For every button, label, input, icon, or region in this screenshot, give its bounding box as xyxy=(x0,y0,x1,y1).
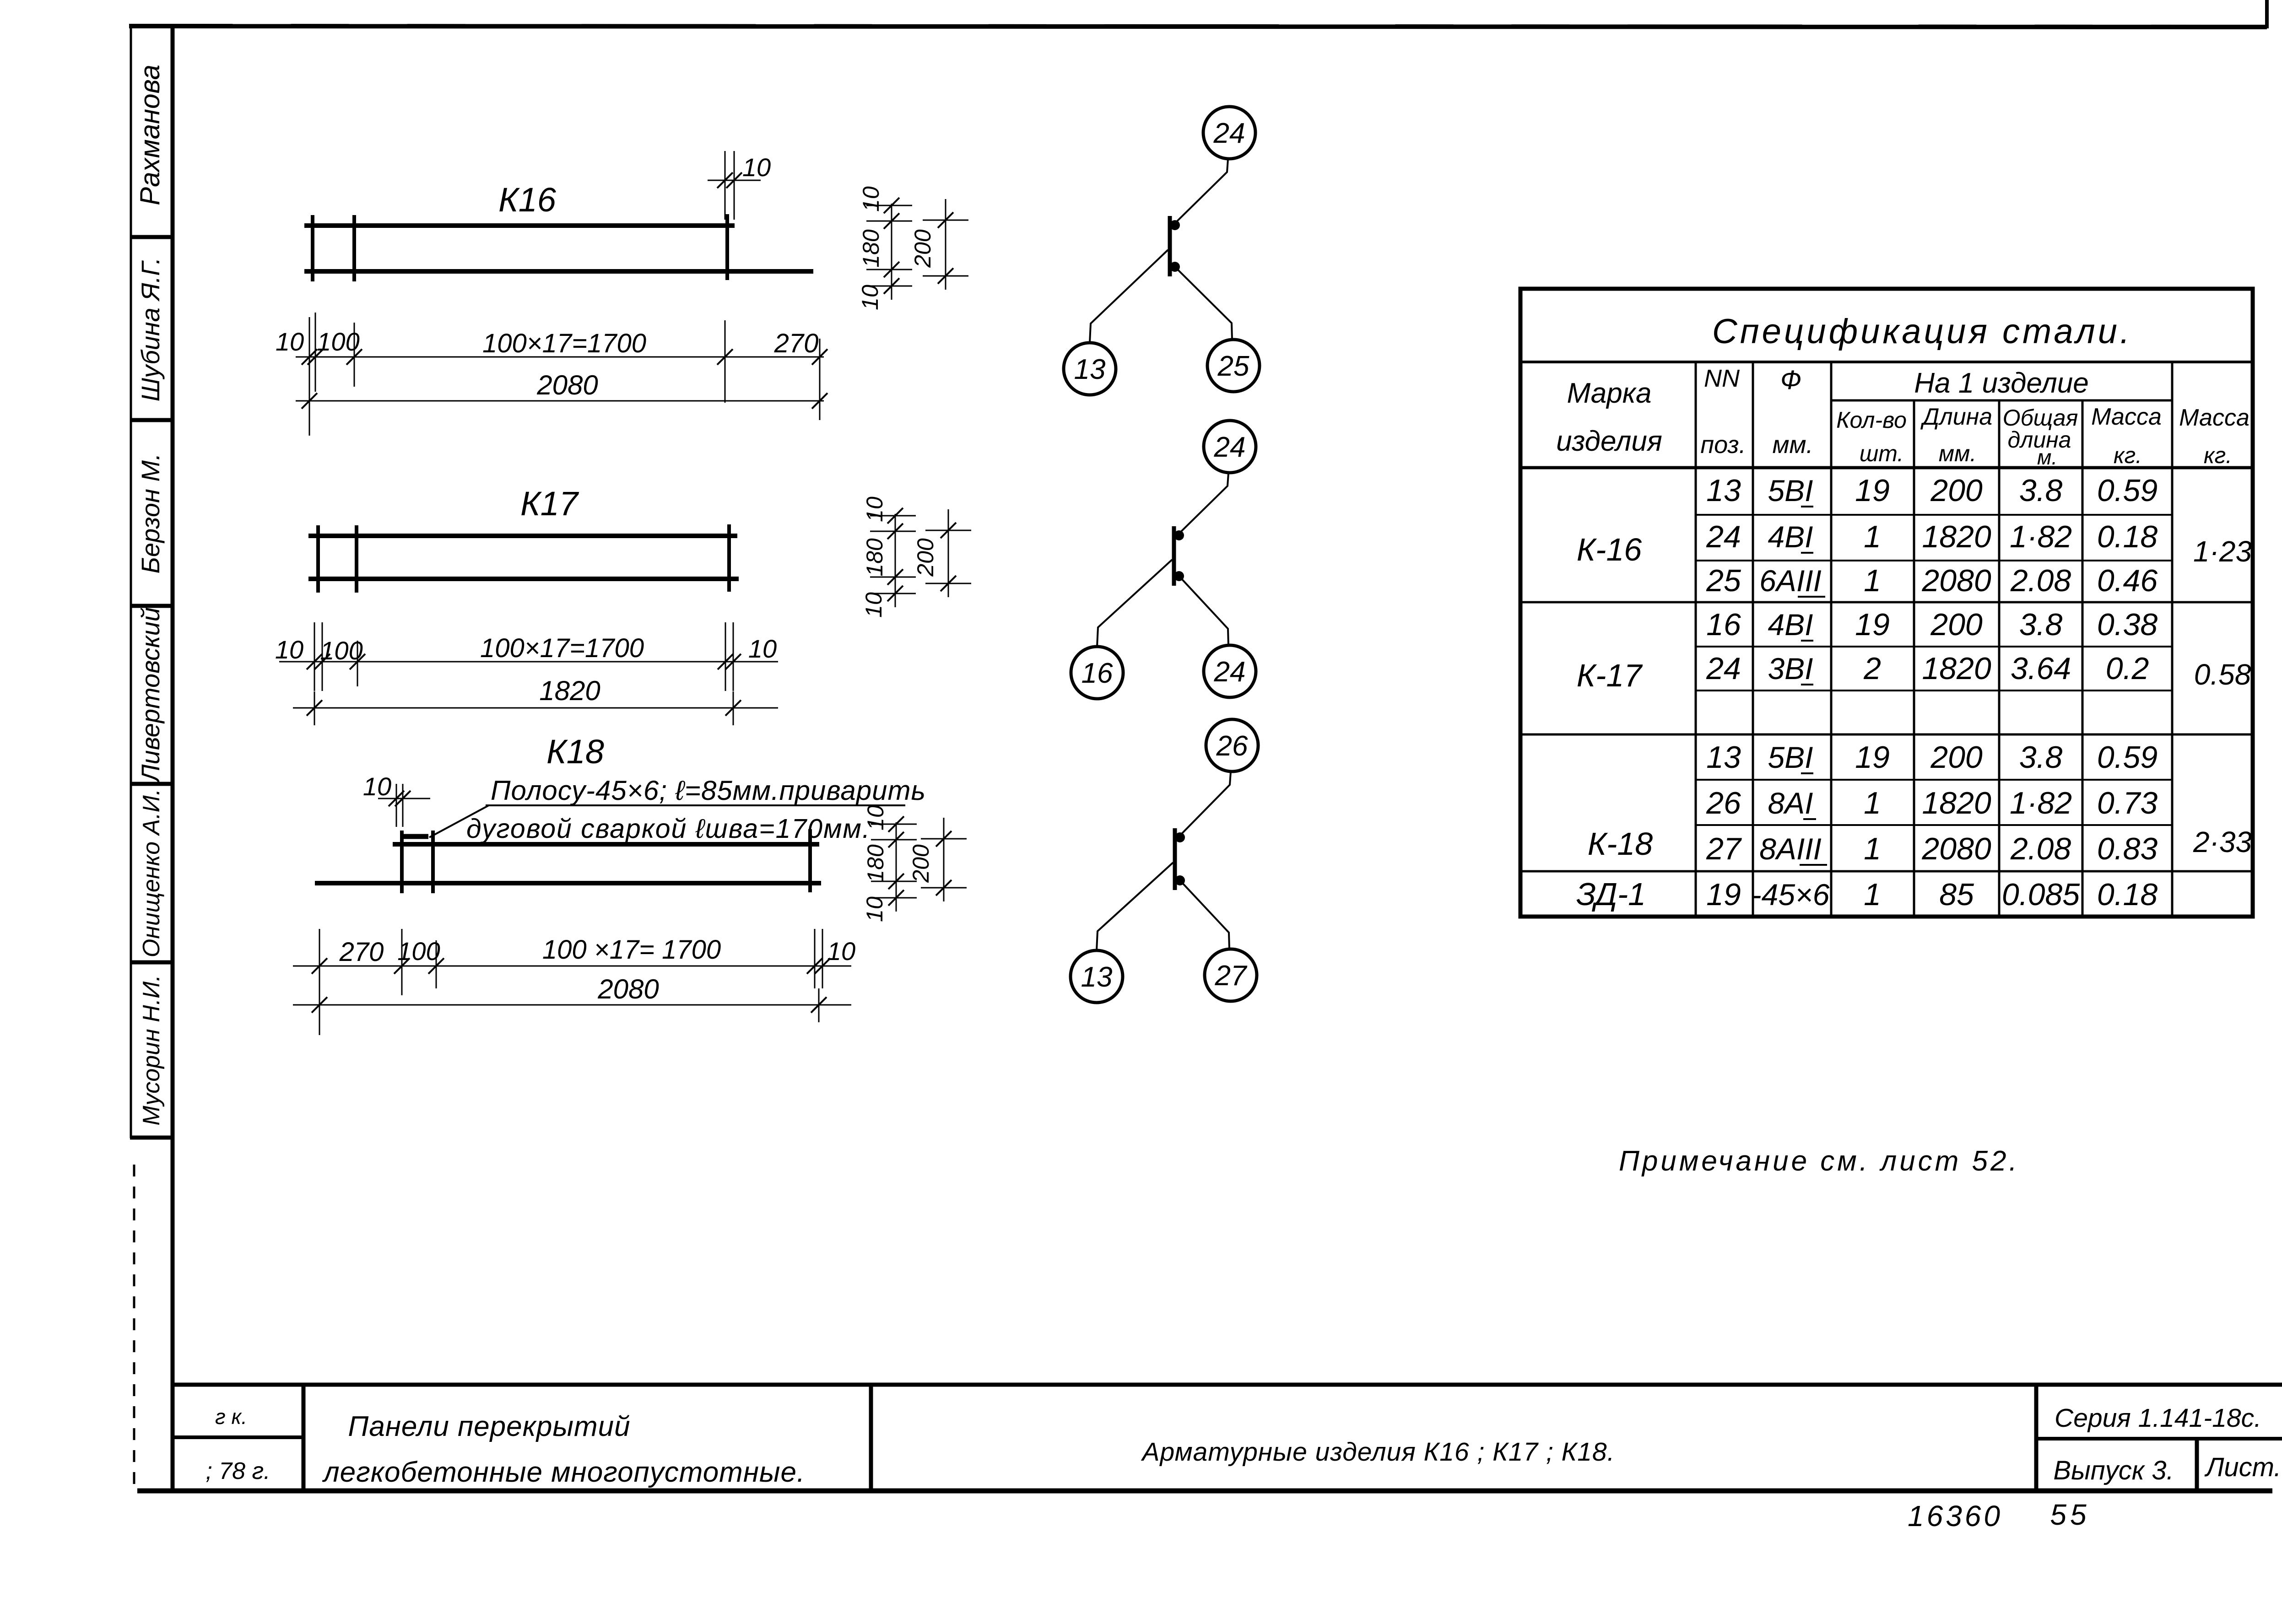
svg-text:К-18: К-18 xyxy=(1588,826,1653,862)
svg-text:200: 200 xyxy=(1930,740,1983,775)
svg-text:1820: 1820 xyxy=(1922,519,1991,554)
table group separator below К-18 xyxy=(1520,870,2253,873)
K16 diagram weld dot top xyxy=(1170,220,1180,230)
svg-text:19: 19 xyxy=(1855,607,1890,642)
svg-text:0.085: 0.085 xyxy=(2002,877,2080,912)
sidebar dashed left edge continuation xyxy=(133,1165,135,1485)
svg-text:1: 1 xyxy=(1864,563,1881,598)
svg-text:24: 24 xyxy=(1706,651,1741,686)
K17 overall dimension 1820 xyxy=(293,707,778,709)
svg-text:Панели перекрытий: Панели перекрытий xyxy=(348,1411,630,1442)
svg-text:55: 55 xyxy=(2050,1498,2090,1531)
title block top line xyxy=(173,1383,2282,1387)
svg-text:3.64: 3.64 xyxy=(2011,651,2071,686)
K16 diagram callout circle 24 (top) xyxy=(1203,107,1255,159)
svg-text:8АIII: 8АIII xyxy=(1759,832,1822,866)
K17 diagram leader from section bar to circle 16 xyxy=(1097,560,1172,647)
svg-text:2.08: 2.08 xyxy=(2010,563,2071,598)
svg-text:Лист.: Лист. xyxy=(2204,1452,2282,1482)
K18 diagram callout circle 26 (top) xyxy=(1206,719,1258,772)
K17 diagram leader from section bar to circle 24 xyxy=(1180,577,1228,645)
table inner row line 3 xyxy=(1696,646,2172,647)
svg-text:; 78 г.: ; 78 г. xyxy=(205,1458,270,1484)
K16 diagram weld dot bottom xyxy=(1170,262,1180,272)
svg-text:10: 10 xyxy=(862,896,887,922)
svg-text:1·82: 1·82 xyxy=(2010,519,2072,554)
sidebar cell divider 5 xyxy=(130,960,173,965)
svg-text:0.73: 0.73 xyxy=(2097,786,2158,820)
K17 cross-section dimension 10/180/10 xyxy=(895,514,896,607)
svg-text:К17: К17 xyxy=(520,485,579,523)
K16 diagram leader from section bar to circle 13 xyxy=(1090,250,1168,343)
svg-text:3.8: 3.8 xyxy=(2019,740,2063,775)
svg-text:2·33: 2·33 xyxy=(2193,825,2252,858)
K16 overall dimension 2080 xyxy=(296,400,824,402)
svg-text:25: 25 xyxy=(1706,563,1741,598)
K18 right cross rod (pos 13) xyxy=(808,829,812,892)
svg-text:19: 19 xyxy=(1855,473,1890,508)
svg-text:200: 200 xyxy=(908,844,934,883)
svg-text:мм.: мм. xyxy=(1772,431,1813,459)
K16 top chord (pos 24) xyxy=(304,223,735,228)
svg-text:3.8: 3.8 xyxy=(2019,473,2063,508)
svg-text:шт.: шт. xyxy=(1860,441,1903,466)
svg-text:0.59: 0.59 xyxy=(2097,473,2158,508)
svg-text:10: 10 xyxy=(742,153,771,182)
K18 left cross rod 1 (pos 13) xyxy=(400,831,404,893)
K16 left cross rod 2 (pos 13) xyxy=(352,215,356,281)
svg-text:13: 13 xyxy=(1074,354,1106,385)
svg-text:Выпуск 3.: Выпуск 3. xyxy=(2053,1456,2174,1485)
title block left col row divider xyxy=(173,1435,303,1439)
svg-text:Ф: Ф xyxy=(1780,365,1801,395)
K17 top chord (pos 24) xyxy=(308,534,737,538)
K18 diagram weld dot bottom xyxy=(1175,875,1185,885)
svg-text:180: 180 xyxy=(858,229,884,268)
svg-text:Масса: Масса xyxy=(2091,404,2162,430)
svg-text:4ВI: 4ВI xyxy=(1768,520,1813,554)
K18 diagram leader from section bar to circle 13 xyxy=(1097,863,1173,950)
svg-text:100 ×17= 1700: 100 ×17= 1700 xyxy=(542,935,721,965)
svg-text:1: 1 xyxy=(1864,519,1881,554)
title block divider: Выпуск | Лист xyxy=(2195,1439,2199,1491)
frame top-right corner stub xyxy=(2265,0,2269,28)
svg-text:2080: 2080 xyxy=(1921,831,1991,866)
K18 plate overhang dim 10 (top left) xyxy=(378,798,430,799)
svg-text:0.38: 0.38 xyxy=(2097,607,2158,642)
table column line NN|Ф xyxy=(1752,362,1754,917)
svg-text:24: 24 xyxy=(1214,656,1246,688)
svg-text:13: 13 xyxy=(1081,961,1113,993)
table column line Марка|NN xyxy=(1695,362,1697,917)
svg-text:100: 100 xyxy=(397,937,440,966)
svg-text:85: 85 xyxy=(1939,877,1974,912)
K17 left cross rod 1 (pos 16) xyxy=(316,525,320,593)
K16 right cross rod (pos 13) xyxy=(725,214,729,280)
svg-text:100×17=1700: 100×17=1700 xyxy=(482,329,646,358)
svg-text:1820: 1820 xyxy=(1922,786,1991,820)
K17 diagram section bar xyxy=(1172,526,1176,586)
sidebar cell divider 2 xyxy=(130,418,173,422)
table subheader line under На 1 изделие xyxy=(1831,399,2172,402)
K17 cross-section dimension 200 xyxy=(948,509,949,597)
svg-text:Примечание см. лист 52.: Примечание см. лист 52. xyxy=(1619,1145,2020,1177)
table inner row line 5 xyxy=(1696,779,2172,781)
sidebar left edge xyxy=(130,27,132,1138)
K18 diagram callout circle 13 (bottom left) xyxy=(1071,950,1123,1003)
svg-text:10: 10 xyxy=(276,327,304,356)
svg-text:10: 10 xyxy=(275,635,303,664)
K18 bottom chord (pos 27) xyxy=(315,881,821,885)
svg-text:NN: NN xyxy=(1704,365,1740,392)
K16 diagram callout circle 25 (bottom right) xyxy=(1207,340,1260,392)
svg-text:Марка: Марка xyxy=(1567,378,1651,409)
svg-text:200: 200 xyxy=(913,538,938,577)
K18 left cross rod 2 (pos 13) xyxy=(431,831,435,893)
frame top border xyxy=(129,26,2267,27)
svg-text:27: 27 xyxy=(1215,960,1248,992)
svg-text:24: 24 xyxy=(1706,519,1741,554)
svg-text:изделия: изделия xyxy=(1556,426,1662,457)
table inner row line 4 xyxy=(1696,690,2172,691)
table group separator below К-16 xyxy=(1520,601,2253,604)
svg-text:26: 26 xyxy=(1216,730,1248,762)
svg-text:10: 10 xyxy=(863,805,888,831)
svg-text:0.18: 0.18 xyxy=(2097,877,2158,912)
svg-text:Онищенко А.И.: Онищенко А.И. xyxy=(138,789,165,957)
svg-text:0.83: 0.83 xyxy=(2097,831,2158,866)
svg-text:ЗД-1: ЗД-1 xyxy=(1576,876,1646,912)
K18 top chord (pos 26) xyxy=(393,842,819,847)
svg-text:Рахманова: Рахманова xyxy=(135,65,165,205)
table inner row line 1 xyxy=(1696,514,2172,516)
table column line Ф|На 1 изделие xyxy=(1830,362,1833,917)
K16 cross-section dimension 10/180/10 xyxy=(891,204,892,300)
K16 diagram callout circle 13 (bottom left) xyxy=(1064,343,1116,395)
K16 diagram section bar xyxy=(1168,216,1172,276)
K17 diagram leader from circle 24 to section bar xyxy=(1178,473,1228,534)
svg-text:К18: К18 xyxy=(546,733,604,771)
K17 right cross rod (pos 16) xyxy=(727,524,731,592)
K18 overall dimension 2080 xyxy=(293,1004,851,1006)
svg-text:24: 24 xyxy=(1214,432,1246,463)
svg-text:0.58: 0.58 xyxy=(2194,658,2251,691)
table inner row line 6 xyxy=(1696,824,2172,826)
svg-text:180: 180 xyxy=(862,538,887,577)
svg-text:0.18: 0.18 xyxy=(2097,519,2158,554)
svg-text:180: 180 xyxy=(863,844,888,883)
K17 diagram callout circle 16 (bottom left) xyxy=(1071,647,1123,699)
svg-text:1·82: 1·82 xyxy=(2010,786,2072,820)
svg-text:16360: 16360 xyxy=(1908,1500,2003,1532)
svg-text:Спецификация стали.: Спецификация стали. xyxy=(1712,312,2132,351)
K17 diagram callout circle 24 (bottom right) xyxy=(1204,645,1256,697)
svg-text:Масса: Масса xyxy=(2179,405,2250,431)
svg-text:легкобетонные многопустотны: легкобетонные многопустотные. xyxy=(322,1457,806,1488)
svg-text:6АIII: 6АIII xyxy=(1759,564,1822,598)
K18 diagram callout circle 27 (bottom right) xyxy=(1205,949,1257,1001)
svg-text:3.8: 3.8 xyxy=(2019,607,2063,642)
svg-text:0.2: 0.2 xyxy=(2106,651,2149,686)
svg-text:2080: 2080 xyxy=(1921,563,1991,598)
K16 left cross rod 1 (pos 13) xyxy=(311,215,314,281)
svg-text:поз.: поз. xyxy=(1700,431,1746,459)
svg-text:19: 19 xyxy=(1706,877,1741,912)
svg-text:25: 25 xyxy=(1217,351,1249,382)
table header bottom line xyxy=(1520,466,2253,469)
svg-text:8АI: 8АI xyxy=(1768,786,1813,820)
svg-text:100: 100 xyxy=(320,636,362,665)
K18 dimension chain 270/100/1700/10 xyxy=(293,966,851,967)
svg-text:К-17: К-17 xyxy=(1577,658,1643,693)
frame left border xyxy=(171,24,175,1493)
svg-text:10: 10 xyxy=(857,285,883,310)
svg-text:Кол-во: Кол-во xyxy=(1836,407,1907,433)
K18 leader line to welded plate xyxy=(429,805,489,837)
frame bottom border xyxy=(137,1489,2272,1494)
title block divider: left col | object name xyxy=(302,1385,306,1491)
svg-text:200: 200 xyxy=(910,229,936,268)
svg-text:270: 270 xyxy=(339,937,384,967)
steel specification table frame xyxy=(1520,289,2253,917)
table group separator below К-17 xyxy=(1520,734,2253,736)
svg-text:2: 2 xyxy=(1863,651,1881,686)
svg-text:200: 200 xyxy=(1930,607,1983,642)
sidebar cell divider 1 xyxy=(130,235,173,239)
svg-text:Длина: Длина xyxy=(1920,404,1992,430)
svg-text:1: 1 xyxy=(1864,786,1881,820)
sidebar cell divider 3 xyxy=(130,604,173,608)
svg-text:13: 13 xyxy=(1706,740,1741,775)
svg-text:10: 10 xyxy=(861,592,887,618)
K16 dimension chain 10/100/1700/270 xyxy=(296,356,824,358)
svg-text:13: 13 xyxy=(1706,473,1741,508)
svg-text:Серия 1.141-18с.: Серия 1.141-18с. xyxy=(2055,1403,2261,1433)
svg-text:м.: м. xyxy=(2037,445,2057,469)
svg-text:200: 200 xyxy=(1930,473,1983,508)
K18 cross-section dimension 200 xyxy=(943,818,945,901)
svg-text:16: 16 xyxy=(1082,658,1113,689)
table column line Общая|Масса xyxy=(2082,400,2084,917)
svg-text:10: 10 xyxy=(748,634,777,663)
svg-text:кг.: кг. xyxy=(2204,442,2232,468)
K18 welded plate ЗД-1 (pos 19) xyxy=(400,834,428,839)
svg-text:мм.: мм. xyxy=(1939,441,1976,466)
K18 cross-section dimension 10/180/10 xyxy=(896,822,897,912)
table inner row line 2 xyxy=(1696,560,2172,561)
svg-text:1820: 1820 xyxy=(539,675,600,706)
svg-text:г к.: г к. xyxy=(215,1405,247,1429)
svg-text:2080: 2080 xyxy=(536,370,598,400)
K18 diagram section bar xyxy=(1173,828,1177,890)
K17 diagram weld dot top xyxy=(1174,530,1184,540)
svg-text:10: 10 xyxy=(827,937,855,966)
table column line На 1 изделие|Масса общ xyxy=(2171,362,2174,917)
svg-text:2080: 2080 xyxy=(597,974,659,1004)
svg-text:5ВI: 5ВI xyxy=(1768,740,1813,774)
svg-text:10: 10 xyxy=(858,186,884,212)
table column line Кол-во|Длина xyxy=(1913,400,1915,917)
svg-text:1: 1 xyxy=(1864,877,1881,912)
svg-text:Шубина Я.Г.: Шубина Я.Г. xyxy=(136,257,165,401)
K18 diagram leader from circle 26 to section bar xyxy=(1179,772,1231,836)
svg-text:2.08: 2.08 xyxy=(2010,831,2071,866)
svg-text:Берзон М.: Берзон М. xyxy=(136,453,165,573)
svg-text:27: 27 xyxy=(1706,831,1742,866)
svg-text:1820: 1820 xyxy=(1922,651,1991,686)
svg-text:0.46: 0.46 xyxy=(2097,563,2158,598)
svg-text:26: 26 xyxy=(1706,786,1741,820)
svg-text:5ВI: 5ВI xyxy=(1768,474,1813,507)
K17 left cross rod 2 (pos 16) xyxy=(355,525,358,593)
svg-text:100×17=1700: 100×17=1700 xyxy=(480,633,644,663)
title block series row divider xyxy=(2036,1437,2282,1441)
svg-text:Ливертовский: Ливертовский xyxy=(136,607,165,783)
svg-text:1·23: 1·23 xyxy=(2193,535,2252,568)
svg-text:К-16: К-16 xyxy=(1577,532,1642,567)
table title row separator xyxy=(1520,361,2253,363)
title block divider: sheet name | series xyxy=(2034,1385,2039,1491)
table column line Длина|Общая xyxy=(1998,400,2001,917)
svg-text:0.59: 0.59 xyxy=(2097,740,2158,775)
sidebar cell divider 6 xyxy=(130,1136,173,1140)
svg-text:16: 16 xyxy=(1706,607,1741,642)
svg-text:К16: К16 xyxy=(498,181,557,219)
svg-text:3ВI: 3ВI xyxy=(1768,652,1813,685)
K17 dimension chain 10/100/1700/10 xyxy=(279,661,778,663)
K16 diagram leader from section bar to circle 25 xyxy=(1176,268,1232,340)
K17 diagram callout circle 24 (top) xyxy=(1204,421,1256,473)
svg-text:4ВI: 4ВI xyxy=(1768,608,1813,642)
svg-text:100: 100 xyxy=(317,327,359,356)
svg-text:19: 19 xyxy=(1855,740,1890,775)
svg-text:Полосу-45×6; ℓ=85мм.приварить: Полосу-45×6; ℓ=85мм.приварить xyxy=(491,775,926,806)
K18 diagram weld dot top xyxy=(1175,832,1185,842)
K18 diagram leader from section bar to circle 27 xyxy=(1181,881,1229,949)
svg-text:кг.: кг. xyxy=(2114,442,2142,468)
K16 diagram leader from circle 24 to section bar xyxy=(1174,159,1228,224)
svg-text:На 1 изделие: На 1 изделие xyxy=(1914,367,2088,399)
sidebar cell divider 4 xyxy=(130,782,173,786)
svg-text:270: 270 xyxy=(774,329,819,358)
K16 overhang dim 10 (top right) xyxy=(708,180,761,181)
K17 bottom chord (pos 24) xyxy=(308,577,739,581)
K16 cross-section dimension 200 xyxy=(945,199,946,290)
title block divider: object name | sheet name xyxy=(869,1385,873,1491)
svg-text:Арматурные изделия К16 ; К: Арматурные изделия К16 ; К17 ; К18. xyxy=(1141,1437,1615,1467)
K18 weld note underline xyxy=(486,804,905,806)
K16 bottom chord (pos 25) xyxy=(304,269,813,274)
svg-text:24: 24 xyxy=(1213,118,1245,149)
svg-text:-45×6: -45×6 xyxy=(1752,878,1830,912)
svg-text:10: 10 xyxy=(862,496,887,522)
svg-text:1: 1 xyxy=(1864,831,1881,866)
svg-text:10: 10 xyxy=(363,772,391,801)
svg-text:Мусорин Н.И.: Мусорин Н.И. xyxy=(138,975,165,1125)
K17 diagram weld dot bottom xyxy=(1174,571,1184,581)
